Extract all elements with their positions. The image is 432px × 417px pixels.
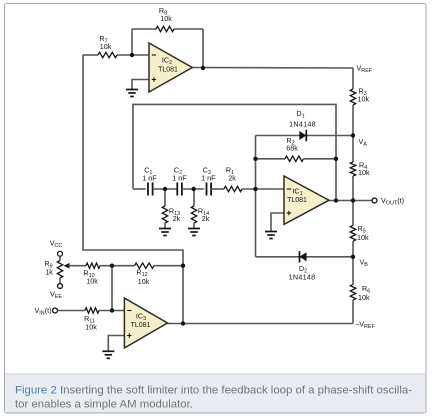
svg-text:10k: 10k <box>160 14 172 23</box>
svg-text:68k: 68k <box>286 144 298 153</box>
svg-text:10k: 10k <box>358 293 370 302</box>
svg-text:Figure 2 Inserting the soft li: Figure 2 Inserting the soft limiter into… <box>15 385 412 397</box>
svg-text:2k: 2k <box>202 214 210 223</box>
svg-text:10k: 10k <box>85 323 97 332</box>
svg-text:1k: 1k <box>45 268 53 277</box>
svg-text:1 nF: 1 nF <box>142 174 157 183</box>
svg-text:2k: 2k <box>228 174 236 183</box>
svg-text:10k: 10k <box>358 95 370 104</box>
svg-text:1 nF: 1 nF <box>172 174 187 183</box>
svg-text:TL081: TL081 <box>287 197 307 204</box>
svg-text:1N4148: 1N4148 <box>289 120 316 129</box>
svg-text:10k: 10k <box>357 233 369 242</box>
svg-text:TL081: TL081 <box>158 67 178 74</box>
svg-text:1N4148: 1N4148 <box>289 273 316 282</box>
svg-text:10k: 10k <box>100 42 112 51</box>
svg-text:10k: 10k <box>138 277 150 286</box>
svg-text:10k: 10k <box>358 168 370 177</box>
svg-text:1 nF: 1 nF <box>201 174 216 183</box>
svg-text:2k: 2k <box>173 214 181 223</box>
svg-text:10k: 10k <box>86 277 98 286</box>
svg-text:TL081: TL081 <box>131 322 151 329</box>
svg-text:tor enables a simple AM modula: tor enables a simple AM modulator. <box>15 399 193 411</box>
